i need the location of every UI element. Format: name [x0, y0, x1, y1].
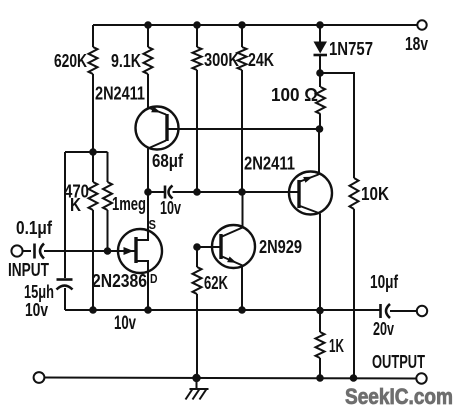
transistor Q3 2N929 body — [212, 225, 255, 268]
node top rail 9.1K — [144, 21, 152, 29]
node Q3 emitter rail — [238, 306, 246, 314]
node Q2 collector rail — [316, 307, 324, 315]
wire 9.1K branch top — [147, 25, 149, 47]
svg-text:2N2411: 2N2411 — [244, 154, 295, 174]
label 10uf — [370, 272, 399, 292]
svg-text:300K: 300K — [204, 50, 239, 70]
node top rail 300K — [193, 21, 201, 29]
wire bias bracket — [65, 151, 108, 153]
label Q2 2N2411 — [244, 154, 295, 174]
svg-text:62K: 62K — [204, 273, 228, 293]
node 620K-470K junction — [89, 148, 97, 156]
transistor Q1 2N2411 body — [136, 107, 179, 150]
wire Q2 collector down — [319, 214, 321, 311]
wire input to cap — [23, 250, 31, 252]
svg-text:10v: 10v — [25, 300, 48, 320]
transistor Q2 collector lead — [300, 206, 320, 214]
wire drain to rail — [147, 273, 149, 311]
transistor U1 channel bar — [134, 237, 137, 263]
wire 1meg top — [107, 152, 109, 182]
wire Q2 node to 1K — [319, 311, 321, 333]
wire Q3 collector up — [242, 192, 244, 228]
terminal 18v — [405, 20, 428, 54]
wire input to gate — [44, 250, 136, 252]
capacitor 68uf — [160, 186, 181, 219]
svg-text:20v: 20v — [373, 319, 394, 339]
svg-text:S: S — [149, 217, 157, 232]
terminal ground left — [34, 372, 45, 383]
wire to 68uf cap — [148, 191, 164, 193]
transistor Q2 base bar — [297, 180, 300, 208]
node 1K bottom rail — [316, 374, 324, 382]
label 0.1uf — [16, 218, 53, 238]
svg-text:2N929: 2N929 — [259, 237, 302, 257]
wire Q1 collector down — [147, 149, 149, 241]
node 470K rail — [89, 306, 97, 314]
node 10K bottom rail — [350, 374, 358, 382]
label 10v bottom — [114, 313, 136, 334]
wire bottom rail — [44, 378, 417, 379]
wire top supply rail — [93, 24, 418, 26]
svg-text:2N2386: 2N2386 — [92, 271, 147, 291]
wire 24K branch down — [241, 70, 243, 192]
wire 470K bottom — [92, 210, 94, 310]
svg-text:1N757: 1N757 — [329, 39, 373, 59]
wire Q3 base — [197, 246, 221, 248]
svg-text:10K: 10K — [361, 184, 389, 204]
transistor Q1 base bar — [165, 114, 168, 141]
resistor 1meg — [103, 182, 146, 214]
svg-text:68μf: 68μf — [152, 151, 184, 171]
wire 300K branch top — [196, 25, 198, 47]
label 68uf — [152, 151, 184, 171]
diode 1N757 — [314, 39, 374, 59]
transistor Q1 emitter lead — [148, 108, 166, 115]
wire 24K branch top — [241, 25, 243, 47]
svg-text:D: D — [150, 271, 158, 286]
node top rail diode — [316, 21, 324, 29]
wire 620K branch top — [92, 25, 94, 47]
transistor Q1 collector lead — [148, 141, 166, 149]
transistor U1 2N2386 body — [118, 229, 162, 273]
wire diode cathode — [319, 55, 321, 73]
wire 10K down — [353, 209, 355, 378]
resistor 62K — [193, 267, 229, 294]
ground symbol — [186, 378, 209, 400]
node ground — [192, 374, 200, 382]
svg-text:10v: 10v — [160, 198, 181, 218]
node top rail 24K — [238, 21, 246, 29]
wire Q1 base — [167, 128, 316, 130]
resistor 470K — [64, 182, 98, 216]
svg-text:1K: 1K — [329, 336, 344, 356]
svg-text:2N2411: 2N2411 — [95, 84, 145, 104]
wire 300K branch down — [196, 70, 198, 192]
label 20v — [373, 319, 394, 339]
pin D label — [150, 271, 158, 286]
svg-text:9.1K: 9.1K — [111, 51, 141, 71]
resistor 620K — [54, 47, 98, 74]
svg-text:10μf: 10μf — [370, 272, 399, 292]
wire cap to output terminal — [390, 310, 417, 312]
svg-text:OUTPUT: OUTPUT — [372, 352, 425, 372]
wire 9.1K to Q1 emitter — [147, 74, 149, 108]
transistor U1 gate arrow — [124, 247, 134, 255]
wire junction to 10K branch — [320, 73, 354, 178]
capacitor 0.1uf — [35, 244, 45, 259]
capacitor 15uh bypass — [57, 280, 73, 290]
svg-text:18v: 18v — [405, 34, 428, 54]
node zener-100ohm junction — [316, 69, 324, 77]
wire 1K to bottom rail — [319, 358, 321, 378]
label OUTPUT — [372, 352, 425, 372]
wire 62K to ground — [196, 294, 198, 378]
wire 620K branch bottom — [92, 74, 94, 152]
svg-text:SeekIC.com: SeekIC.com — [345, 384, 453, 409]
wire 1meg bottom — [107, 210, 109, 251]
svg-text:0.1μf: 0.1μf — [16, 218, 53, 238]
svg-text:10v: 10v — [114, 313, 136, 334]
node Q1 base / Q2 collector — [316, 125, 324, 133]
label 15uh 10v — [24, 282, 54, 320]
node drain rail — [144, 306, 152, 314]
transistor Q2 emitter arrow — [303, 177, 313, 183]
resistor 300K — [193, 47, 240, 70]
wire left branch down — [64, 152, 66, 278]
label Q3 2N929 — [259, 237, 302, 257]
wire 68uf to Q2 base — [173, 191, 300, 193]
transistor Q3 collector lead — [222, 228, 243, 237]
wire left branch to rail — [64, 288, 66, 310]
wire Q3 emitter down — [241, 266, 243, 311]
transistor Q3 emitter arrow — [227, 257, 237, 263]
terminal INPUT — [8, 245, 49, 280]
node 24K-Q3 collector on cap wire — [238, 188, 246, 196]
svg-text:K: K — [70, 195, 81, 215]
node 300K-62K on cap wire — [193, 188, 201, 196]
wire diode anode — [319, 25, 321, 42]
terminal output bottom — [416, 373, 426, 383]
svg-text:1meg: 1meg — [112, 194, 146, 214]
resistor 1K — [316, 332, 345, 358]
transistor U1 source lead — [136, 230, 148, 241]
wire Q2 emitter up — [318, 129, 320, 175]
resistor 100 ohm — [271, 85, 325, 114]
pin S label — [149, 217, 157, 232]
resistor 9.1K — [111, 47, 153, 74]
transistor Q3 base bar — [219, 234, 222, 259]
svg-text:620K: 620K — [54, 51, 87, 71]
svg-text:100 Ω: 100 Ω — [271, 85, 318, 105]
label 2N2386 — [92, 271, 147, 291]
transistor Q3 emitter lead — [222, 257, 243, 266]
node Q3 base — [193, 243, 201, 251]
svg-text:INPUT: INPUT — [8, 260, 49, 280]
wire output rail — [65, 309, 380, 311]
svg-text:24K: 24K — [248, 50, 274, 70]
node 68uf left — [144, 188, 152, 196]
transistor Q2 2N2411 body — [289, 172, 332, 215]
transistor Q2 emitter lead — [300, 175, 319, 182]
node gate junction — [104, 247, 112, 255]
resistor 24K — [238, 47, 275, 70]
wire 100ohm top — [319, 73, 321, 87]
terminal output top — [417, 306, 427, 316]
wire 470K top — [92, 152, 94, 182]
svg-text:15μh: 15μh — [24, 282, 54, 302]
capacitor 10uf output — [381, 304, 391, 318]
resistor 10K — [350, 178, 390, 209]
transistor U1 drain lead — [136, 261, 148, 273]
watermark SeekIC.com — [345, 384, 453, 409]
label Q1 2N2411 — [95, 84, 145, 104]
wire 100ohm to node — [319, 114, 321, 129]
wire 62K top — [196, 247, 198, 267]
transistor Q1 emitter arrow — [151, 106, 161, 112]
